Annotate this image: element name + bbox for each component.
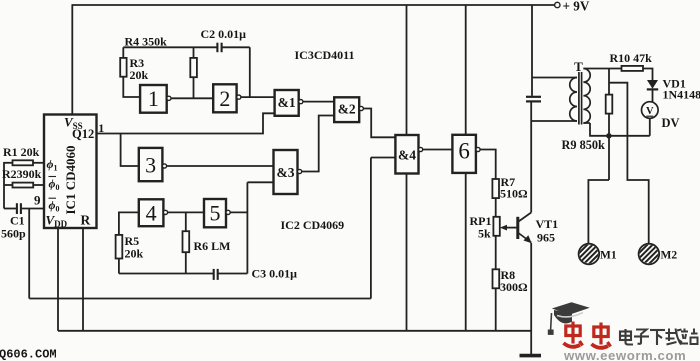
svg-text:+ 9V: + 9V: [563, 0, 590, 14]
svg-text:IC1 CD4060: IC1 CD4060: [63, 146, 78, 215]
svg-text:DV: DV: [662, 116, 680, 130]
svg-text:R9 850k: R9 850k: [562, 138, 606, 152]
svg-text:R2390k: R2390k: [2, 167, 42, 181]
svg-text:2: 2: [219, 86, 230, 111]
svg-text:V: V: [646, 106, 654, 117]
svg-text:R6 LM: R6 LM: [194, 239, 231, 253]
svg-text:ϕ0: ϕ0: [49, 177, 60, 193]
svg-text:1N4148: 1N4148: [663, 88, 700, 102]
svg-text:T: T: [574, 59, 583, 74]
svg-text:1: 1: [98, 121, 104, 135]
svg-text:Q12: Q12: [72, 127, 94, 141]
svg-text:6: 6: [458, 139, 470, 164]
svg-text:510Ω: 510Ω: [500, 187, 528, 201]
svg-text:R: R: [81, 213, 91, 228]
svg-text:965: 965: [537, 231, 555, 245]
svg-text:300Ω: 300Ω: [500, 280, 528, 294]
svg-text:9: 9: [34, 193, 41, 208]
svg-text:ϕ0: ϕ0: [49, 198, 60, 214]
svg-text:5: 5: [210, 201, 221, 226]
svg-text:&1: &1: [278, 95, 296, 110]
svg-text:R1 20k: R1 20k: [3, 145, 40, 159]
svg-text:20k: 20k: [125, 247, 144, 261]
svg-text:M1: M1: [600, 250, 617, 262]
svg-text:R10 47k: R10 47k: [610, 51, 653, 65]
svg-text:C3 0.01μ: C3 0.01μ: [252, 267, 298, 281]
svg-text:IC3CD4011: IC3CD4011: [295, 48, 355, 62]
svg-text:M2: M2: [661, 250, 678, 262]
svg-text:C2 0.01μ: C2 0.01μ: [201, 27, 247, 41]
svg-text:IC2 CD4069: IC2 CD4069: [281, 218, 345, 232]
svg-text:VT1: VT1: [536, 217, 559, 231]
svg-text:ϕ1: ϕ1: [47, 157, 58, 173]
svg-text:560p: 560p: [1, 227, 26, 241]
svg-text:3: 3: [145, 153, 156, 178]
svg-text:4: 4: [146, 201, 157, 226]
svg-text:&2: &2: [338, 102, 356, 117]
svg-text:5k: 5k: [478, 227, 491, 241]
svg-text:20k: 20k: [130, 68, 149, 82]
svg-text:www.eeworm.com: www.eeworm.com: [563, 348, 686, 361]
svg-text:C1: C1: [10, 214, 25, 228]
svg-text:&3: &3: [277, 165, 295, 180]
svg-text:Q606.COM: Q606.COM: [0, 348, 57, 361]
svg-text:&4: &4: [398, 148, 416, 163]
svg-text:1: 1: [148, 86, 159, 111]
svg-text:R4 350k: R4 350k: [125, 35, 168, 49]
